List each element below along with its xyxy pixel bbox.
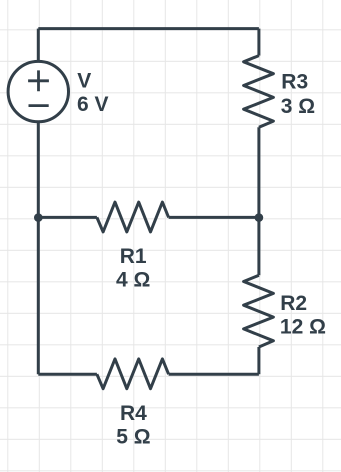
node junction left <box>34 213 43 222</box>
wire top rail <box>38 27 259 30</box>
wire right rail top <box>257 29 260 56</box>
svg-text:12 Ω: 12 Ω <box>280 316 326 339</box>
svg-text:5 Ω: 5 Ω <box>116 426 150 449</box>
svg-text:3 Ω: 3 Ω <box>281 95 315 118</box>
svg-text:V: V <box>77 70 91 93</box>
voltage source V1 circle <box>8 61 68 121</box>
wire middle branch left <box>38 216 97 219</box>
wire left rail upper <box>37 29 40 62</box>
node junction right <box>255 213 264 222</box>
wire bottom rail right <box>169 373 259 376</box>
wire bottom rail left <box>38 373 97 376</box>
resistor R3 zigzag <box>244 56 274 128</box>
resistor R4 zigzag <box>97 359 169 389</box>
plus sign <box>28 70 49 91</box>
resistor R1 zigzag <box>97 202 169 232</box>
svg-text:R2: R2 <box>280 292 307 315</box>
wire right rail middle <box>257 127 260 275</box>
wire right rail bottom <box>257 347 260 374</box>
svg-text:R3: R3 <box>281 71 308 94</box>
wire middle branch right <box>169 216 259 219</box>
wire left rail lower <box>37 122 40 374</box>
svg-text:R1: R1 <box>120 245 147 268</box>
svg-text:R4: R4 <box>120 402 147 425</box>
minus sign <box>29 104 49 107</box>
svg-text:4 Ω: 4 Ω <box>116 268 150 291</box>
resistor R2 zigzag <box>244 275 274 347</box>
svg-text:6 V: 6 V <box>77 93 109 116</box>
